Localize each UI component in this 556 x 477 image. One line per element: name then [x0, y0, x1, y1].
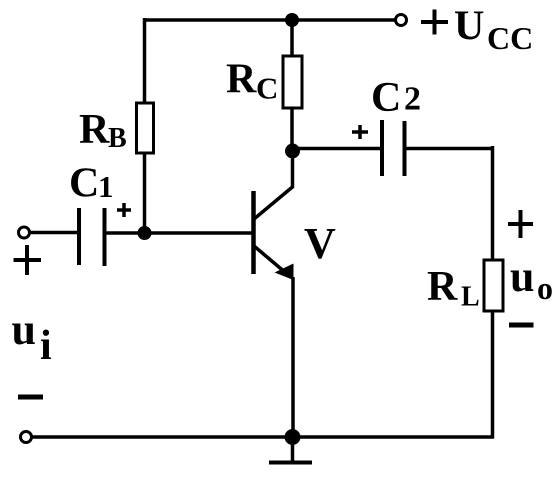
- label ui: [12, 305, 53, 369]
- svg-text:o: o: [537, 270, 553, 306]
- label + output: [508, 210, 533, 238]
- label +Ucc: [421, 4, 533, 57]
- svg-text:R: R: [226, 57, 257, 103]
- node collector junction: [285, 144, 300, 159]
- node top rail junction: [285, 13, 299, 27]
- wire left vertical to RB: [143, 18, 147, 104]
- transistor V: [254, 151, 294, 437]
- svg-text:R: R: [427, 264, 458, 310]
- label RC: [226, 57, 278, 106]
- label + at C2: [352, 125, 368, 139]
- label RL: [427, 264, 480, 313]
- label uo: [510, 252, 553, 306]
- wire right vertical to RL: [491, 146, 495, 261]
- svg-text:i: i: [40, 323, 52, 369]
- svg-text:1: 1: [98, 169, 114, 204]
- label - output: [509, 323, 534, 328]
- wire C2 to right corner: [406, 147, 494, 151]
- wire top rail: [143, 18, 395, 22]
- svg-text:C: C: [371, 75, 401, 121]
- wire base node to transistor: [145, 231, 252, 235]
- svg-text:B: B: [108, 123, 127, 154]
- wire RL to bottom rail: [491, 311, 495, 438]
- label C2: [371, 75, 421, 121]
- label - input: [18, 395, 43, 400]
- terminal input top: [19, 227, 30, 238]
- svg-text:u: u: [510, 252, 534, 301]
- capacitor C1: [79, 208, 105, 266]
- resistor RB: [137, 103, 154, 153]
- ground: [269, 437, 312, 463]
- svg-text:L: L: [461, 282, 480, 313]
- wire top rail to RC: [290, 20, 294, 57]
- wire C1 to base node: [106, 231, 145, 235]
- svg-text:V: V: [304, 219, 336, 268]
- capacitor C2: [382, 120, 405, 176]
- label C1: [69, 161, 114, 207]
- wire input to C1: [30, 231, 79, 235]
- svg-text:C: C: [69, 161, 99, 207]
- wire RC to collector node: [290, 108, 294, 151]
- node emitter junction: [285, 429, 301, 445]
- resistor RC: [283, 56, 302, 108]
- svg-text:R: R: [79, 107, 110, 153]
- wire RB to base node: [143, 153, 147, 233]
- label + at C1: [117, 203, 131, 217]
- wire bottom rail: [32, 435, 494, 439]
- terminal +Ucc: [396, 15, 407, 26]
- svg-text:u: u: [12, 305, 36, 354]
- node base junction: [138, 226, 152, 240]
- svg-text:U: U: [454, 4, 484, 50]
- wire collector to C2: [293, 147, 383, 151]
- terminal input bottom: [21, 432, 32, 443]
- svg-text:2: 2: [404, 81, 421, 118]
- label + input: [14, 245, 42, 275]
- svg-text:CC: CC: [487, 20, 533, 56]
- svg-text:C: C: [256, 71, 278, 106]
- resistor RL: [484, 260, 503, 311]
- label RB: [79, 107, 127, 154]
